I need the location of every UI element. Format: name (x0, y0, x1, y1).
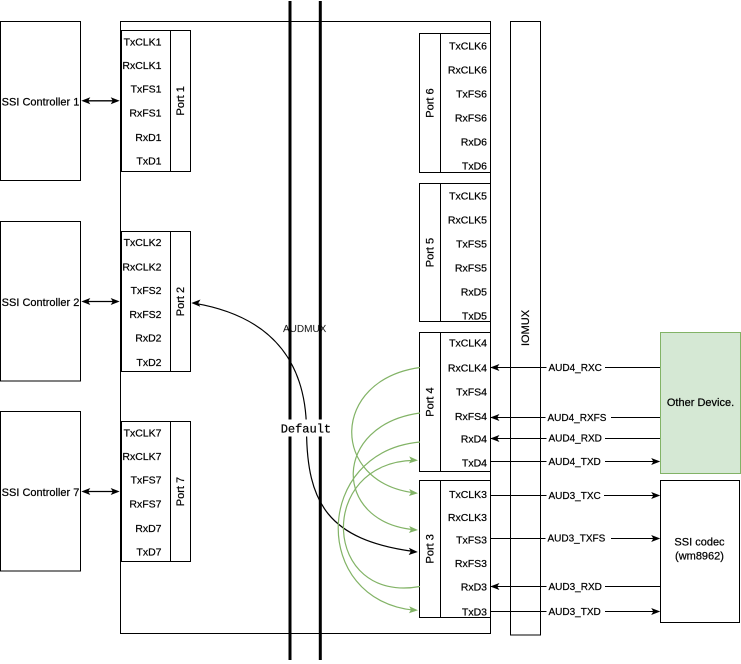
svg-text:Port 2: Port 2 (175, 287, 187, 316)
svg-text:RxD2: RxD2 (135, 333, 161, 345)
svg-text:TxCLK6: TxCLK6 (449, 41, 487, 53)
svg-text:RxFS5: RxFS5 (455, 262, 487, 274)
svg-text:Port 7: Port 7 (175, 477, 187, 506)
svg-text:RxFS4: RxFS4 (455, 411, 487, 423)
svg-text:RxD4: RxD4 (461, 433, 487, 445)
green arrowhead TxD3 (409, 606, 418, 613)
svg-text:SSI Controller 7: SSI Controller 7 (2, 487, 80, 499)
green wire RxFS4 to TxFS3 (353, 413, 420, 530)
svg-text:AUD3_TXD: AUD3_TXD (549, 607, 601, 618)
green wire RxD3 to TxD4 (343, 460, 420, 588)
port 5 box (420, 184, 491, 323)
port 3 box (420, 481, 491, 619)
SSI codec box (661, 481, 740, 623)
Default label (278, 420, 334, 437)
port 6 box (420, 34, 491, 173)
wire SSI1-Port1 (81, 97, 119, 104)
wire AUD4_RXC (490, 360, 660, 374)
svg-text:Port 6: Port 6 (425, 88, 437, 117)
svg-text:TxFS7: TxFS7 (131, 475, 162, 487)
svg-text:RxCLK1: RxCLK1 (122, 60, 161, 72)
svg-text:RxCLK7: RxCLK7 (122, 451, 161, 463)
green wire RxD4 to TxD3 (338, 442, 420, 610)
SSI Controller 2 box (1, 222, 81, 382)
svg-text:TxCLK1: TxCLK1 (124, 36, 162, 48)
svg-text:TxD5: TxD5 (462, 310, 487, 322)
green arrowhead TxFS3 (409, 526, 418, 533)
Other Device box (661, 333, 741, 474)
port 4 box (420, 333, 491, 472)
wire AUD4_RXD (490, 431, 660, 445)
svg-text:RxCLK2: RxCLK2 (122, 261, 161, 273)
svg-text:AUD4_RXFS: AUD4_RXFS (548, 413, 607, 424)
wire AUD4_RXFS (490, 410, 660, 424)
svg-text:RxD6: RxD6 (461, 136, 487, 148)
svg-text:TxFS2: TxFS2 (131, 285, 162, 297)
svg-text:Port 4: Port 4 (425, 387, 437, 416)
green arrowhead TxD4 (409, 456, 418, 463)
svg-text:Port 1: Port 1 (175, 86, 187, 115)
svg-text:RxD7: RxD7 (135, 523, 161, 535)
svg-text:AUD3_TXC: AUD3_TXC (549, 491, 601, 502)
svg-text:TxFS4: TxFS4 (456, 387, 487, 399)
wire AUD3_RXD (490, 579, 660, 593)
svg-text:AUD3_RXD: AUD3_RXD (549, 582, 602, 593)
svg-text:AUD4_TXD: AUD4_TXD (549, 457, 601, 468)
svg-text:Other Device.: Other Device. (667, 397, 734, 409)
svg-text:RxFS7: RxFS7 (129, 499, 161, 511)
svg-text:AUD4_RXC: AUD4_RXC (549, 363, 602, 374)
wire SSI2-Port2 (81, 298, 119, 305)
svg-text:RxFS6: RxFS6 (455, 112, 487, 124)
IOMUX box (511, 22, 541, 636)
svg-text:TxD7: TxD7 (136, 547, 161, 559)
SSI Controller 7 box (1, 412, 81, 572)
port 2 box (122, 232, 191, 372)
port 1 box (122, 31, 191, 172)
svg-text:Port 5: Port 5 (425, 238, 437, 267)
svg-text:TxCLK7: TxCLK7 (124, 428, 162, 440)
AUDMUX outer box (121, 22, 491, 634)
svg-text:TxCLK4: TxCLK4 (449, 337, 487, 349)
svg-text:Port 3: Port 3 (425, 534, 437, 563)
svg-text:TxD3: TxD3 (462, 606, 487, 618)
svg-text:SSI Controller 2: SSI Controller 2 (2, 297, 80, 309)
crossbar line left (289, 1, 292, 660)
svg-text:RxCLK4: RxCLK4 (448, 363, 487, 375)
svg-text:TxFS1: TxFS1 (131, 84, 162, 96)
svg-text:AUD3_TXFS: AUD3_TXFS (548, 534, 606, 545)
svg-text:AUD4_RXD: AUD4_RXD (549, 434, 602, 445)
svg-text:TxFS3: TxFS3 (456, 535, 487, 547)
svg-text:RxFS3: RxFS3 (455, 558, 487, 570)
wire AUD3_TXD (491, 604, 661, 618)
crossbar line right (319, 1, 322, 660)
wire SSI7-Port7 (81, 488, 119, 495)
svg-text:RxD5: RxD5 (461, 286, 487, 298)
svg-text:RxCLK3: RxCLK3 (448, 512, 487, 524)
wire AUD3_TXFS (491, 531, 661, 545)
svg-text:TxFS5: TxFS5 (456, 238, 487, 250)
port 7 box (122, 422, 191, 562)
svg-text:TxD6: TxD6 (462, 160, 487, 172)
Default curve Port2-Port3 (191, 300, 417, 556)
svg-text:RxFS2: RxFS2 (129, 309, 161, 321)
wire AUD4_TXD (491, 454, 661, 468)
green arrowhead TxCLK3 (409, 489, 418, 496)
SSI Controller 1 box (1, 22, 81, 181)
svg-text:TxCLK5: TxCLK5 (449, 191, 487, 203)
svg-text:RxD3: RxD3 (461, 582, 487, 594)
svg-text:SSI codec: SSI codec (674, 537, 725, 549)
svg-text:TxD4: TxD4 (462, 457, 487, 469)
svg-text:(wm8962): (wm8962) (675, 551, 724, 563)
svg-text:RxD1: RxD1 (135, 132, 161, 144)
svg-text:RxCLK5: RxCLK5 (448, 215, 487, 227)
green wire RxCLK4 to TxCLK3 (352, 368, 420, 493)
svg-text:TxCLK3: TxCLK3 (449, 489, 487, 501)
svg-text:Default: Default (281, 422, 331, 436)
svg-text:TxCLK2: TxCLK2 (124, 237, 162, 249)
svg-text:RxCLK6: RxCLK6 (448, 65, 487, 77)
svg-text:RxFS1: RxFS1 (129, 108, 161, 120)
svg-text:SSI Controller 1: SSI Controller 1 (2, 96, 80, 108)
svg-text:IOMUX: IOMUX (520, 309, 532, 346)
svg-text:TxFS6: TxFS6 (456, 88, 487, 100)
svg-text:TxD1: TxD1 (136, 156, 161, 168)
svg-text:TxD2: TxD2 (136, 357, 161, 369)
wire AUD3_TXC (491, 488, 661, 502)
